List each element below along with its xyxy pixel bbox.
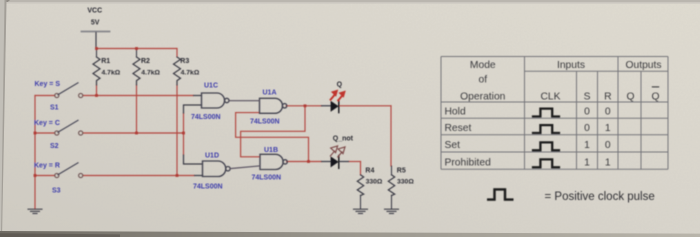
svg-text:1: 1 bbox=[584, 158, 590, 169]
svg-text:U1D: U1D bbox=[205, 152, 219, 159]
svg-text:R: R bbox=[604, 92, 611, 103]
svg-text:U1C: U1C bbox=[204, 83, 218, 90]
svg-text:Outputs: Outputs bbox=[625, 60, 661, 71]
svg-text:Set: Set bbox=[445, 140, 461, 151]
svg-text:Key = C: Key = C bbox=[34, 120, 60, 127]
svg-text:Reset: Reset bbox=[445, 123, 472, 134]
svg-text:1: 1 bbox=[605, 123, 611, 134]
svg-text:Mode: Mode bbox=[470, 60, 496, 71]
svg-text:Key = S: Key = S bbox=[35, 81, 61, 88]
svg-text:R4: R4 bbox=[365, 167, 374, 174]
svg-text:74LS00N: 74LS00N bbox=[191, 114, 221, 121]
svg-text:R3: R3 bbox=[180, 58, 189, 65]
svg-text:5V: 5V bbox=[91, 19, 100, 26]
svg-text:Q: Q bbox=[337, 82, 343, 89]
svg-text:U1B: U1B bbox=[264, 147, 278, 154]
svg-text:Q: Q bbox=[651, 92, 659, 103]
svg-text:4.7kΩ: 4.7kΩ bbox=[141, 70, 160, 77]
svg-text:Q: Q bbox=[626, 92, 634, 103]
svg-text:0: 0 bbox=[584, 107, 590, 118]
svg-text:0: 0 bbox=[605, 107, 611, 118]
svg-text:Key = R: Key = R bbox=[34, 163, 60, 170]
svg-text:330Ω: 330Ω bbox=[397, 179, 414, 186]
svg-text:0: 0 bbox=[584, 123, 590, 134]
svg-text:U1A: U1A bbox=[263, 90, 277, 97]
svg-text:CLK: CLK bbox=[540, 92, 560, 103]
svg-text:74LS00N: 74LS00N bbox=[252, 175, 282, 182]
svg-text:= Positive clock pulse: = Positive clock pulse bbox=[545, 191, 655, 203]
svg-text:Operation: Operation bbox=[460, 92, 505, 103]
svg-text:of: of bbox=[479, 75, 488, 86]
svg-text:74LS00N: 74LS00N bbox=[250, 119, 280, 126]
svg-text:1: 1 bbox=[605, 158, 611, 169]
svg-text:S2: S2 bbox=[50, 143, 59, 150]
svg-text:74LS00N: 74LS00N bbox=[193, 184, 223, 191]
svg-text:4.7kΩ: 4.7kΩ bbox=[102, 70, 121, 77]
svg-text:R1: R1 bbox=[101, 58, 110, 65]
svg-text:S1: S1 bbox=[50, 105, 59, 112]
svg-text:4.7kΩ: 4.7kΩ bbox=[181, 70, 200, 77]
svg-text:0: 0 bbox=[605, 140, 611, 151]
svg-text:R5: R5 bbox=[397, 167, 406, 174]
svg-text:R2: R2 bbox=[141, 58, 150, 65]
svg-text:330Ω: 330Ω bbox=[366, 179, 383, 186]
svg-text:VCC: VCC bbox=[87, 8, 102, 15]
svg-text:1: 1 bbox=[584, 140, 590, 151]
svg-text:Inputs: Inputs bbox=[557, 60, 585, 71]
svg-text:S3: S3 bbox=[52, 188, 61, 195]
svg-text:Hold: Hold bbox=[445, 107, 466, 118]
svg-text:Q_not: Q_not bbox=[333, 136, 354, 143]
svg-text:S: S bbox=[584, 92, 591, 103]
svg-text:Prohibited: Prohibited bbox=[445, 158, 492, 169]
